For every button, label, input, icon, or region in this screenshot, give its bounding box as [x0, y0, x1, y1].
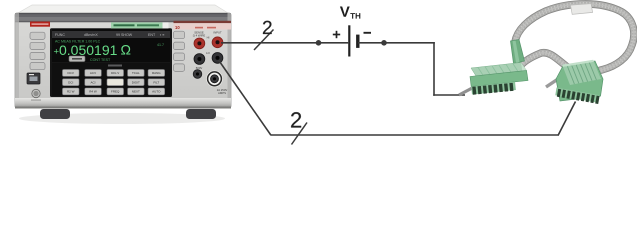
bus slash top [254, 30, 274, 51]
svg-text:DCI: DCI [68, 81, 73, 85]
left connector top face [471, 63, 527, 77]
svg-text:ACI: ACI [90, 81, 95, 85]
svg-text:FUNC: FUNC [55, 33, 65, 37]
terminal labels [193, 31, 228, 96]
left connector teeth backing [471, 82, 516, 95]
wire: bottom diagonal from AMPS terminal [219, 60, 271, 135]
svg-text:HI: HI [207, 36, 210, 40]
svg-text:DCV: DCV [68, 71, 74, 75]
wire: corner down [433, 42, 435, 96]
keypad area [52, 63, 170, 96]
svg-text:NEXT: NEXT [132, 90, 140, 94]
multimeter DMM6500 [15, 5, 231, 124]
meter shadow [19, 113, 225, 124]
left connector front face [470, 71, 528, 87]
svg-text:dBm/mX: dBm/mX [84, 33, 98, 37]
cable assembly [459, 4, 634, 104]
keypad keys [63, 70, 165, 95]
braided cable loop [515, 4, 634, 72]
svg-text:Ω 4 WIRE: Ω 4 WIRE [193, 34, 206, 38]
terminal SENSE LO (black) [194, 54, 205, 65]
junction node left of battery [316, 40, 322, 46]
left connector pigtail wire [459, 86, 476, 95]
svg-text:41.7: 41.7 [157, 43, 164, 47]
meter body front panel [15, 13, 231, 108]
svg-text:R2 W: R2 W [67, 90, 75, 94]
label 2 (top bus) [263, 21, 272, 34]
left soft-key buttons column [30, 32, 45, 69]
battery VTH negative plate [356, 35, 359, 48]
right connector teeth [557, 89, 600, 104]
wire: battery to corner [358, 42, 435, 44]
terminal small lower [193, 70, 202, 79]
svg-text:AUTO: AUTO [152, 90, 161, 94]
right panel buttons column [174, 31, 185, 71]
svg-text:ENT: ENT [148, 33, 156, 37]
right connector hatched top face [563, 62, 601, 85]
display bezel [50, 28, 172, 97]
USB port [27, 73, 40, 84]
bus slash bottom [292, 123, 308, 145]
cable label tag [571, 4, 593, 15]
left connector teeth [472, 83, 513, 95]
meter right edge shading [228, 13, 232, 108]
AMPS terminal with callout circle [206, 71, 223, 88]
green model band [111, 22, 163, 28]
svg-text:99 SHOW: 99 SHOW [116, 33, 133, 37]
label 2 (bottom bus) [291, 112, 301, 127]
KEITHLEY red logo [30, 22, 50, 27]
right connector pigtail wire [546, 77, 561, 87]
svg-text:CONT TEST: CONT TEST [90, 58, 111, 62]
meter left edge shading [15, 13, 19, 108]
battery VTH positive plate [348, 25, 350, 56]
svg-text:0.050191: 0.050191 [59, 42, 118, 58]
svg-text:FILT: FILT [153, 81, 159, 85]
right panel red accent strip [174, 21, 232, 23]
terminal INPUT HI (red) [212, 37, 223, 48]
svg-text:R4 W: R4 W [89, 90, 97, 94]
battery VTH plus sign [333, 31, 340, 38]
meter top face [18, 5, 228, 13]
meter foot left [40, 109, 70, 119]
svg-text:TCAL: TCAL [132, 71, 140, 75]
screen [52, 29, 170, 62]
power button [32, 89, 40, 97]
right connector body [556, 61, 603, 101]
left connector boot [511, 40, 525, 64]
meter foot right [186, 109, 216, 119]
svg-text:10: 10 [175, 25, 180, 30]
junction node right of battery [381, 40, 387, 46]
meter top dark band [15, 13, 231, 22]
right connector top edge highlight [562, 60, 594, 67]
left connector right side face [521, 63, 528, 81]
label VTH [340, 6, 350, 16]
right connector [555, 60, 603, 104]
screen soft keycap [69, 56, 85, 62]
terminal INPUT LO (black) [212, 53, 223, 64]
svg-text:▪ ≡: ▪ ≡ [160, 33, 164, 37]
svg-text:DIGIT: DIGIT [132, 81, 140, 85]
wire: down to left connector [433, 94, 465, 96]
battery VTH minus sign [364, 32, 372, 34]
right connector teeth backing [555, 88, 599, 103]
left connector [470, 40, 528, 95]
wire: bottom horizontal [271, 134, 559, 136]
svg-text:ACV: ACV [90, 71, 96, 75]
svg-text:FREQ: FREQ [111, 90, 120, 94]
wire: bottom up to right connector [558, 102, 576, 136]
wire: top from INPUT HI to battery [221, 42, 348, 44]
meter bottom face [15, 98, 231, 108]
screen menu bar [52, 31, 170, 38]
svg-text:INPUT: INPUT [213, 31, 222, 35]
svg-text:DIG V: DIG V [111, 71, 119, 75]
svg-text:AMPS: AMPS [218, 91, 226, 95]
terminal SENSE HI (red) [194, 38, 205, 49]
svg-text:RANG: RANG [152, 71, 161, 75]
svg-text:Ω: Ω [121, 42, 131, 58]
